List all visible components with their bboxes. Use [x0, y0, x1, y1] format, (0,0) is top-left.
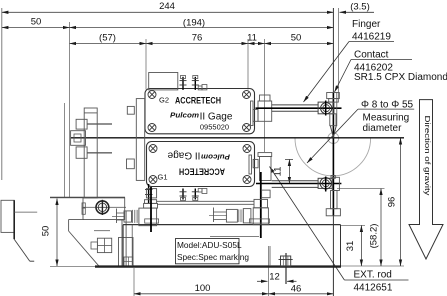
svg-text:4412651: 4412651 [354, 283, 393, 294]
svg-text:Spec:Spec marking: Spec:Spec marking [177, 252, 249, 262]
svg-text:SR1.5 CPX Diamond: SR1.5 CPX Diamond [354, 72, 447, 83]
svg-text:(3.5): (3.5) [350, 2, 370, 13]
svg-text:11: 11 [273, 167, 284, 177]
svg-text:Model:ADU-S05L: Model:ADU-S05L [177, 240, 242, 250]
svg-text:11: 11 [247, 33, 257, 44]
svg-text:31: 31 [345, 241, 356, 252]
svg-text:(194): (194) [183, 18, 205, 29]
svg-text:Finger: Finger [352, 19, 381, 30]
svg-text:diameter: diameter [363, 123, 403, 134]
svg-text:96: 96 [387, 197, 398, 208]
svg-text:ACCRETECH: ACCRETECH [175, 96, 221, 106]
svg-text:II Gage: II Gage [200, 112, 233, 123]
svg-text:Contact: Contact [354, 50, 389, 61]
svg-text:Direction of gravity: Direction of gravity [423, 116, 432, 196]
svg-text:EXT. rod: EXT. rod [354, 270, 392, 281]
svg-text:50: 50 [291, 33, 302, 44]
svg-text:0955020: 0955020 [200, 123, 229, 132]
svg-text:ACCRETECH: ACCRETECH [179, 167, 225, 177]
svg-text:12: 12 [269, 272, 280, 283]
svg-text:(57): (57) [99, 33, 116, 44]
svg-text:46: 46 [291, 284, 302, 295]
svg-text:Pulcom: Pulcom [170, 111, 199, 120]
svg-text:Measuring: Measuring [363, 113, 410, 124]
svg-text:50: 50 [41, 226, 52, 237]
svg-text:4416219: 4416219 [352, 32, 391, 43]
svg-text:100: 100 [195, 283, 211, 294]
svg-text:244: 244 [159, 1, 175, 12]
svg-text:G2: G2 [159, 96, 169, 105]
svg-text:50: 50 [31, 17, 42, 28]
svg-text:(58.2): (58.2) [369, 224, 380, 249]
svg-text:II Gage: II Gage [167, 150, 200, 161]
svg-text:Pulcom: Pulcom [201, 153, 230, 162]
svg-text:G1: G1 [157, 173, 167, 182]
svg-text:76: 76 [192, 33, 203, 44]
